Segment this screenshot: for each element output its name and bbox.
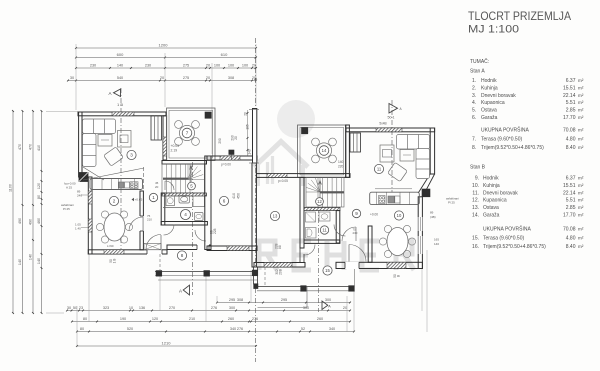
svg-text:6: 6 [223, 199, 226, 204]
svg-text:340: 340 [329, 327, 335, 331]
terrace B [298, 125, 347, 177]
svg-text:m²: m² [578, 100, 584, 105]
svg-text:A 25: A 25 [66, 186, 72, 190]
room circle 13 [270, 211, 279, 220]
svg-text:Trijem(9.52*0.50+4.86*0.75): Trijem(9.52*0.50+4.86*0.75) [481, 145, 544, 151]
svg-text:UKUPNA POVRŠINA: UKUPNA POVRŠINA [483, 226, 531, 233]
garage door arc A [195, 230, 206, 241]
svg-text:275: 275 [183, 76, 189, 80]
svg-text:80: 80 [37, 195, 41, 199]
svg-text:275: 275 [183, 64, 189, 68]
svg-text:m²: m² [578, 227, 584, 232]
unit A top wall [78, 112, 166, 116]
svg-text:100: 100 [228, 64, 234, 68]
svg-text:Dnevni boravak: Dnevni boravak [481, 93, 516, 99]
svg-text:20B: 20B [279, 269, 283, 275]
svg-text:230: 230 [90, 64, 96, 68]
svg-text:120: 120 [152, 317, 158, 321]
svg-text:410: 410 [232, 193, 236, 199]
svg-text:450: 450 [237, 193, 241, 199]
svg-text:190: 190 [120, 317, 126, 321]
svg-text:52: 52 [301, 327, 305, 331]
svg-text:70.08: 70.08 [563, 128, 576, 134]
room circle 12 [316, 198, 324, 206]
svg-text:A: A [179, 289, 182, 294]
svg-text:10.: 10. [472, 183, 479, 189]
svg-text:300: 300 [303, 306, 309, 310]
svg-text:80: 80 [83, 317, 87, 321]
svg-text:m²: m² [578, 244, 584, 249]
stove A [130, 182, 138, 189]
svg-text:140: 140 [338, 160, 344, 164]
svg-text:3: 3 [130, 153, 133, 158]
unit A bottom wall kitchen [88, 250, 167, 254]
kitchen counter A [90, 179, 143, 190]
svg-text:8.40: 8.40 [566, 244, 576, 250]
svg-text:Garaža: Garaža [481, 115, 498, 121]
svg-text:5.: 5. [472, 108, 476, 114]
svg-text:Pl 25: Pl 25 [448, 201, 455, 205]
stairs B [306, 177, 344, 207]
svg-text:276: 276 [237, 327, 243, 331]
svg-text:5x4B: 5x4B [379, 122, 386, 126]
svg-text:m²: m² [578, 85, 584, 90]
sofa A [83, 119, 116, 167]
svg-text:140: 140 [117, 64, 123, 68]
garage A [205, 156, 211, 250]
svg-text:+0.05: +0.05 [171, 144, 180, 148]
svg-text:Pl 25: Pl 25 [63, 207, 70, 211]
armchair A [104, 147, 124, 166]
section marker A bottom-left [183, 285, 189, 295]
svg-text:323: 323 [103, 306, 109, 310]
svg-text:1100: 1100 [9, 184, 13, 192]
svg-text:30: 30 [67, 306, 71, 310]
section marker A top-right [389, 104, 398, 114]
svg-text:20: 20 [160, 76, 164, 80]
svg-text:8.: 8. [472, 145, 476, 151]
room circle 14 [319, 146, 329, 156]
svg-text:m²: m² [578, 198, 584, 203]
svg-text:p=0.05: p=0.05 [278, 179, 288, 183]
bath fixtures B [306, 212, 316, 222]
svg-text:228: 228 [213, 228, 217, 234]
svg-text:11.: 11. [472, 190, 479, 196]
bathroom B [336, 211, 340, 243]
svg-text:410: 410 [37, 145, 41, 151]
bottom dimension block [217, 302, 350, 304]
room circle 10 [394, 211, 403, 220]
svg-text:23: 23 [79, 306, 83, 310]
room circle 15 [323, 266, 332, 275]
svg-text:136: 136 [139, 306, 145, 310]
entrance door A [146, 235, 161, 250]
svg-text:1.40: 1.40 [75, 227, 81, 231]
svg-text:Garaža: Garaža [483, 213, 500, 219]
svg-text:m²: m² [578, 213, 584, 218]
svg-text:Stan B: Stan B [470, 165, 486, 171]
svg-text:5: 5 [190, 184, 193, 189]
svg-text:Terasa (9.60*0.50): Terasa (9.60*0.50) [483, 236, 524, 242]
svg-text:20: 20 [234, 136, 238, 140]
svg-text:490: 490 [18, 218, 22, 224]
svg-text:Trijem(9.52*0.50+4.86*0.75): Trijem(9.52*0.50+4.86*0.75) [483, 244, 546, 250]
svg-text:12.: 12. [472, 198, 479, 204]
svg-text:m²: m² [578, 236, 584, 241]
svg-text:Kupaonica: Kupaonica [481, 100, 505, 106]
kitchen counter B [370, 192, 420, 204]
svg-text:15.51: 15.51 [563, 85, 576, 91]
svg-text:m²: m² [578, 128, 584, 133]
svg-text:270: 270 [169, 306, 175, 310]
svg-text:TUMAČ:: TUMAČ: [470, 58, 489, 65]
garage door arc B [305, 245, 316, 256]
shoe cabinet A [144, 244, 161, 250]
svg-text:308: 308 [228, 76, 234, 80]
svg-text:m²: m² [578, 205, 584, 210]
unit B east wall living [430, 128, 434, 174]
svg-text:120: 120 [37, 183, 41, 189]
svg-text:2.85: 2.85 [566, 108, 576, 114]
svg-text:20: 20 [206, 76, 210, 80]
svg-text:300: 300 [325, 298, 331, 302]
room circle 3 [127, 150, 136, 159]
svg-text:4.: 4. [472, 100, 476, 106]
section axis lines [120, 88, 122, 249]
corridor south wall [167, 245, 211, 250]
entrance door B [349, 245, 366, 262]
svg-text:+0.05: +0.05 [135, 198, 143, 202]
svg-text:1: 1 [152, 195, 155, 200]
hodnik wall kitchen-east [140, 191, 143, 250]
svg-text:22.14: 22.14 [563, 93, 576, 99]
svg-text:470: 470 [29, 144, 33, 150]
round table B [316, 143, 331, 158]
svg-text:Kuhinja: Kuhinja [481, 85, 498, 91]
svg-text:15.: 15. [472, 236, 479, 242]
svg-text:MJ 1:100: MJ 1:100 [468, 23, 519, 35]
svg-text:7.: 7. [472, 137, 476, 143]
flue on top wall [151, 116, 162, 140]
svg-text:165: 165 [434, 238, 439, 242]
svg-text:Dnevni boravak: Dnevni boravak [483, 190, 518, 196]
svg-text:2.: 2. [472, 85, 476, 91]
svg-text:20: 20 [343, 306, 347, 310]
svg-text:m²: m² [578, 176, 584, 181]
svg-text:TLOCRT PRIZEMLJA: TLOCRT PRIZEMLJA [468, 11, 571, 23]
svg-text:88: 88 [278, 245, 282, 249]
svg-text:13: 13 [273, 214, 278, 219]
dining table A [104, 213, 125, 241]
unit A west wall living [79, 112, 82, 177]
svg-text:16.: 16. [472, 244, 479, 250]
garage B [256, 174, 350, 178]
svg-text:8.40: 8.40 [566, 145, 576, 151]
svg-text:Ostava: Ostava [483, 205, 499, 211]
svg-text:140: 140 [18, 259, 22, 265]
svg-text:B: B [397, 275, 401, 277]
svg-text:140: 140 [29, 254, 33, 260]
svg-text:22.14: 22.14 [563, 190, 576, 196]
svg-text:L=90: L=90 [107, 244, 114, 248]
svg-text:295: 295 [229, 298, 235, 302]
svg-text:p=0.00: p=0.00 [221, 163, 231, 167]
svg-text:14.: 14. [472, 213, 479, 219]
svg-text:50: 50 [73, 306, 77, 310]
svg-text:m²: m² [578, 108, 584, 113]
svg-text:14: 14 [322, 148, 327, 153]
room circle 8 [177, 251, 186, 260]
living east wall / terrace window [163, 116, 167, 160]
svg-text:276: 276 [211, 306, 217, 310]
understairs wall B [304, 208, 340, 211]
svg-text:490: 490 [29, 219, 33, 225]
svg-text:100: 100 [242, 64, 248, 68]
svg-text:140: 140 [434, 242, 439, 246]
svg-text:UKUPNA POVRŠINA: UKUPNA POVRŠINA [481, 127, 529, 134]
svg-text:Kuhinja: Kuhinja [483, 183, 500, 189]
svg-text:240: 240 [77, 194, 82, 198]
unit B bottom wall [336, 262, 422, 268]
door hodnik-kitchen B [342, 227, 356, 241]
svg-text:9.: 9. [475, 176, 479, 182]
svg-text:1200: 1200 [159, 43, 169, 48]
svg-text:10: 10 [397, 213, 402, 218]
watermark letters [259, 241, 414, 270]
party wall [253, 109, 257, 164]
room circle 11 [374, 164, 383, 173]
svg-text:10: 10 [129, 306, 133, 310]
svg-text:340: 340 [230, 327, 236, 331]
svg-text:17.70: 17.70 [563, 213, 576, 219]
svg-text:(4B): (4B) [430, 215, 436, 219]
svg-text:300: 300 [229, 306, 235, 310]
chamfer wall B [423, 174, 435, 197]
svg-text:540: 540 [117, 76, 123, 80]
room circle 7 [182, 128, 192, 138]
svg-text:Hodnik: Hodnik [483, 176, 499, 182]
living room B furniture [397, 135, 430, 179]
svg-text:8: 8 [181, 253, 184, 258]
svg-text:20: 20 [206, 64, 210, 68]
terrace A [167, 108, 215, 161]
kitchen B east wall [418, 197, 422, 269]
round table A [179, 125, 194, 140]
svg-text:15: 15 [325, 268, 330, 273]
section marker A top-left [114, 89, 121, 97]
svg-text:260: 260 [228, 317, 234, 321]
room circle 9 [352, 209, 360, 217]
svg-text:80: 80 [80, 327, 84, 331]
svg-text:6.: 6. [472, 115, 476, 121]
bathroom A [161, 193, 165, 225]
svg-text:600: 600 [117, 52, 124, 57]
svg-text:m²: m² [578, 183, 584, 188]
svg-text:Stan A: Stan A [470, 69, 485, 75]
svg-text:11: 11 [377, 167, 382, 172]
unit B top wall [346, 128, 435, 132]
tv stand A [118, 131, 132, 148]
svg-text:2: 2 [113, 199, 116, 204]
party wall porch extension [254, 267, 258, 284]
watermark logo [254, 100, 315, 186]
bath fixtures A [166, 196, 175, 206]
svg-text:520: 520 [127, 327, 133, 331]
svg-text:Hodnik: Hodnik [481, 78, 497, 84]
corner column A [79, 173, 88, 182]
svg-text:13.: 13. [472, 205, 479, 211]
room circle 2 [109, 196, 118, 205]
svg-text:5.51: 5.51 [566, 100, 576, 106]
door hodnik-stairs [165, 181, 174, 190]
svg-text:m²: m² [578, 93, 584, 98]
section marker A bottom-right [322, 301, 328, 310]
svg-text:220: 220 [338, 165, 344, 169]
svg-text:50 1: 50 1 [388, 116, 395, 120]
room circle 4 [181, 210, 191, 220]
coffee table A [98, 135, 112, 147]
svg-text:5.51: 5.51 [566, 198, 576, 204]
svg-text:260: 260 [317, 317, 323, 321]
svg-text:30: 30 [70, 76, 74, 80]
svg-text:m²: m² [578, 137, 584, 142]
svg-text:2.19: 2.19 [171, 149, 178, 153]
svg-text:m²: m² [578, 190, 584, 195]
svg-text:Kupaonica: Kupaonica [483, 198, 507, 204]
svg-text:+0.00: +0.00 [370, 213, 378, 217]
porch A edge [155, 271, 258, 273]
room circle 11 [320, 226, 328, 234]
svg-text:4.80: 4.80 [566, 236, 576, 242]
svg-text:1 B: 1 B [117, 102, 123, 107]
svg-text:610: 610 [221, 52, 228, 57]
svg-text:11: 11 [322, 228, 327, 233]
svg-text:7: 7 [186, 131, 189, 136]
unit A west wall kitchen [88, 177, 92, 254]
room circle 5 [188, 182, 196, 190]
door kitchen-hodnik [129, 217, 143, 231]
svg-text:470: 470 [18, 144, 22, 150]
svg-text:A: A [108, 91, 111, 96]
svg-text:15.51: 15.51 [563, 183, 576, 189]
svg-text:100: 100 [214, 64, 220, 68]
understairs wall [162, 193, 207, 196]
svg-text:2.85: 2.85 [566, 205, 576, 211]
svg-text:17.70: 17.70 [563, 115, 576, 121]
svg-text:m²: m² [578, 145, 584, 150]
svg-text:4.80: 4.80 [566, 137, 576, 143]
dining table B [387, 228, 408, 256]
top dimension block [68, 48, 256, 81]
diagonal corner lines [83, 168, 144, 180]
bath B door arc [334, 225, 346, 237]
unit B west wall living [346, 125, 350, 177]
svg-text:89: 89 [430, 211, 434, 215]
svg-text:Ostava: Ostava [481, 108, 497, 114]
svg-text:230: 230 [353, 231, 358, 235]
svg-text:1.: 1. [472, 78, 476, 84]
svg-text:12: 12 [317, 199, 322, 204]
svg-text:230: 230 [145, 64, 151, 68]
svg-text:1 B: 1 B [113, 259, 117, 264]
svg-text:210: 210 [147, 218, 152, 222]
porch B edge [257, 286, 354, 288]
svg-text:6.37: 6.37 [566, 78, 576, 84]
svg-text:6.37: 6.37 [566, 176, 576, 182]
left dimension block [12, 111, 14, 313]
svg-text:140: 140 [37, 258, 41, 264]
svg-text:295: 295 [281, 298, 287, 302]
svg-text:3.: 3. [472, 93, 476, 99]
svg-text:m²: m² [578, 78, 584, 83]
svg-text:m²: m² [578, 115, 584, 120]
svg-text:4: 4 [184, 212, 187, 217]
svg-text:228: 228 [275, 243, 279, 249]
svg-text:308: 308 [237, 298, 243, 302]
svg-text:1210: 1210 [162, 341, 172, 346]
svg-text:276: 276 [252, 317, 258, 321]
stairs A [162, 164, 205, 193]
svg-text:460: 460 [37, 218, 41, 224]
svg-text:Terasa (9.60*0.50): Terasa (9.60*0.50) [481, 137, 522, 143]
room circle 6 [219, 196, 228, 205]
room circle 1 [149, 193, 157, 201]
svg-text:290: 290 [218, 138, 222, 144]
flue B [350, 133, 361, 152]
svg-text:210: 210 [189, 317, 195, 321]
svg-text:9: 9 [355, 211, 358, 216]
hodnik B wall to kitchen [368, 226, 372, 262]
stairwell top wall [162, 161, 207, 165]
sink A [119, 182, 124, 188]
svg-text:70.08: 70.08 [563, 227, 576, 233]
svg-text:20: 20 [155, 185, 159, 189]
